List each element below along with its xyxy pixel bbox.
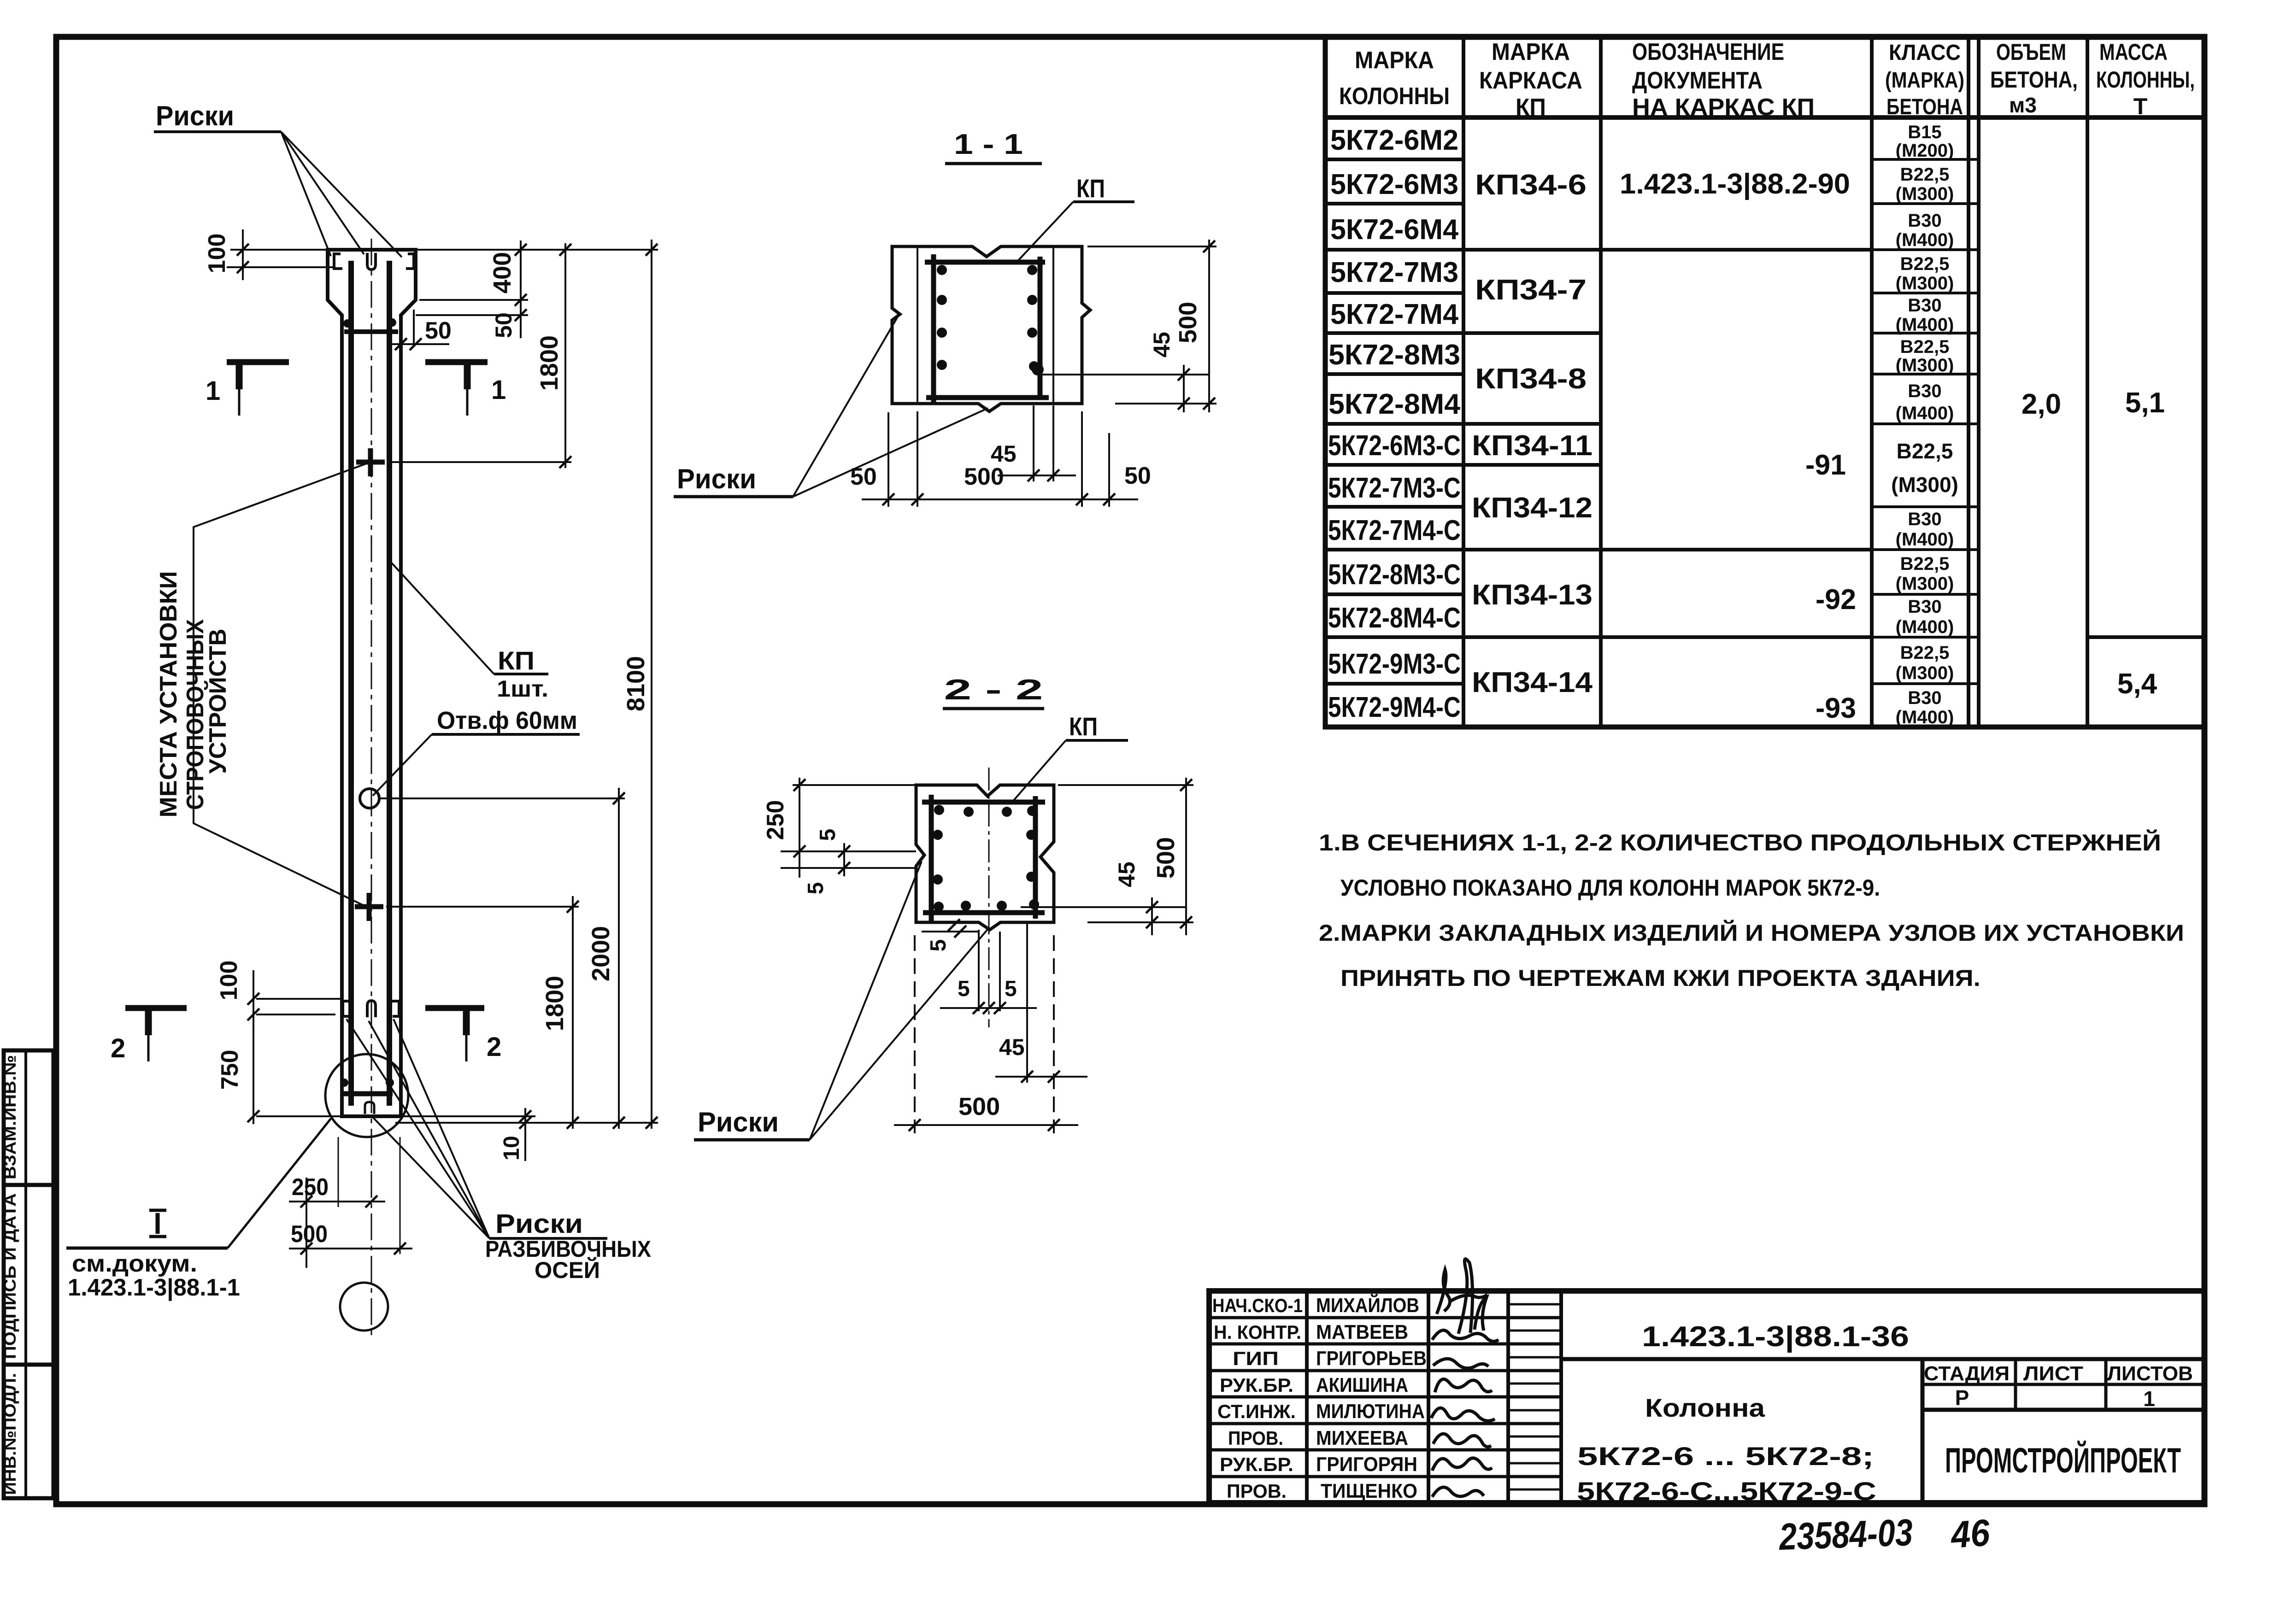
svg-text:1 - 1: 1 - 1: [954, 129, 1023, 160]
svg-text:ГРИГОРЬЕВ: ГРИГОРЬЕВ: [1316, 1347, 1427, 1370]
svg-text:5К72-9М4-С: 5К72-9М4-С: [1328, 692, 1461, 723]
title block vertical line name|signature: [1427, 1291, 1430, 1503]
section 1-1 bars: [937, 265, 947, 275]
svg-text:Н. КОНТР.: Н. КОНТР.: [1214, 1321, 1301, 1343]
section 1-1 bottom chain dim line: [862, 498, 1138, 500]
svg-text:(М300): (М300): [1896, 355, 1954, 375]
big signature flourish top: [1458, 1259, 1487, 1334]
svg-text:КП34-7: КП34-7: [1475, 274, 1587, 306]
extension top right: [1087, 246, 1217, 247]
svg-text:КП: КП: [498, 646, 535, 675]
riski leader fan top 2: [281, 132, 364, 254]
svg-text:АКИШИНА: АКИШИНА: [1316, 1374, 1408, 1396]
svg-text:500: 500: [964, 463, 1004, 490]
svg-text:5: 5: [804, 882, 828, 895]
svg-text:В30: В30: [1908, 688, 1941, 708]
section 1-1 stirrup top bar: [925, 260, 1045, 265]
svg-text:5: 5: [1005, 977, 1017, 1001]
svg-text:(М400): (М400): [1896, 529, 1954, 550]
svg-text:5: 5: [958, 977, 970, 1001]
svg-text:ЛИСТОВ: ЛИСТОВ: [2107, 1362, 2193, 1385]
section 2-2 bottom edge dashed extensions: [914, 935, 916, 1133]
разбивочные leader fan 2: [369, 1021, 489, 1238]
top riska hook right: [406, 254, 414, 269]
svg-text:РУК.БР.: РУК.БР.: [1220, 1454, 1293, 1475]
detail label I: [149, 1209, 166, 1212]
section mark 1 left arrow: [236, 365, 243, 389]
bottom riska hook right: [391, 1001, 399, 1016]
svg-text:(М300): (М300): [1896, 184, 1954, 204]
svg-text:45: 45: [1149, 332, 1175, 358]
detail circle: [325, 1054, 408, 1137]
dim 50 overhang line: [391, 343, 449, 345]
section 2-2 riski leader 2: [810, 928, 989, 1140]
section mark 1 right line: [425, 359, 488, 365]
dim 1800 top line: [564, 243, 566, 468]
extension from bottom cross: [386, 906, 579, 908]
section 2-2 header underline: [943, 707, 1044, 710]
svg-text:УСТРОЙСТВ: УСТРОЙСТВ: [204, 629, 231, 774]
G-SECTION22: [694, 674, 1193, 1140]
svg-text:КП: КП: [1076, 174, 1105, 203]
svg-text:5К72-8М4: 5К72-8М4: [1328, 388, 1461, 420]
svg-text:(М300): (М300): [1896, 663, 1954, 683]
hole circle: [360, 789, 379, 808]
section 1-1 header underline: [945, 162, 1042, 165]
svg-text:100: 100: [204, 234, 230, 274]
svg-text:МИХАЙЛОВ: МИХАЙЛОВ: [1316, 1293, 1419, 1317]
extension line taper bottom right: [416, 314, 528, 316]
svg-text:8100: 8100: [622, 656, 650, 711]
svg-text:ОБОЗНАЧЕНИЕ: ОБОЗНАЧЕНИЕ: [1632, 39, 1784, 65]
svg-text:КП34-8: КП34-8: [1475, 363, 1587, 395]
svg-text:(М200): (М200): [1896, 141, 1954, 161]
row lines column 1: [1325, 159, 1463, 684]
svg-text:400: 400: [488, 252, 516, 293]
dim 1800 bottom line: [572, 896, 574, 1129]
small ticks at bottom notch: [948, 919, 960, 931]
svg-text:КП: КП: [1516, 94, 1546, 121]
svg-text:В15: В15: [1908, 122, 1941, 142]
svg-text:23584-03: 23584-03: [1778, 1512, 1914, 1558]
section 2-2 bar level extension right: [1021, 906, 1186, 908]
section 1-1 bottom extensions: [887, 412, 889, 507]
svg-text:ПРОВ.: ПРОВ.: [1228, 1427, 1283, 1449]
svg-text:В30: В30: [1908, 597, 1941, 617]
svg-text:МАРКА: МАРКА: [1355, 47, 1434, 74]
svg-text:10: 10: [500, 1136, 524, 1160]
svg-text:-93: -93: [1816, 692, 1856, 724]
svg-text:В22,5: В22,5: [1900, 554, 1950, 574]
extension vertical left of bubble: [306, 1178, 307, 1268]
table header bottom line: [1325, 115, 2204, 120]
label Отв underline: [432, 733, 580, 736]
svg-text:Риски: Риски: [156, 100, 234, 131]
left margin strip inner divider: [24, 1050, 27, 1498]
svg-text:5К72-6М4: 5К72-6М4: [1330, 214, 1459, 246]
section 1-1 stirrup bottom bar: [926, 395, 1049, 400]
svg-text:ИНВ.№ПОДЛ.: ИНВ.№ПОДЛ.: [0, 1373, 19, 1495]
КП leader: [392, 563, 494, 674]
масса column split line: [2087, 635, 2204, 639]
svg-text:КОЛОННЫ: КОЛОННЫ: [1339, 83, 1450, 110]
svg-text:Риски: Риски: [677, 463, 756, 494]
bottom anchor line: [343, 1091, 393, 1096]
svg-text:5,1: 5,1: [2125, 387, 2165, 419]
svg-text:ПОДПИСЬ И ДАТА: ПОДПИСЬ И ДАТА: [0, 1193, 19, 1359]
extension from bottom notch left: [922, 931, 979, 932]
table column line 5 (объем | масса): [2086, 37, 2089, 727]
dim 10 line: [524, 1108, 526, 1161]
role labels: [1212, 1295, 1303, 1502]
svg-text:В22,5: В22,5: [1900, 254, 1950, 274]
section 2-2 dim 500 right line: [1185, 778, 1187, 935]
title block row lines left part: [1209, 1318, 1561, 1477]
section 2-2 bars: [934, 805, 944, 815]
bottom riska center fork: [367, 1001, 376, 1017]
svg-text:МАРКА: МАРКА: [1492, 39, 1570, 65]
row lines column 4 класс бетона: [1872, 159, 1979, 684]
section mark 2 left arrow: [145, 1011, 152, 1035]
svg-text:5,4: 5,4: [2117, 668, 2157, 700]
svg-text:5К72-7М3-С: 5К72-7М3-С: [1328, 472, 1461, 504]
svg-text:1.423.1-3|88.2-90: 1.423.1-3|88.2-90: [1620, 168, 1850, 200]
svg-text:50: 50: [491, 312, 517, 338]
стадия column lines: [2014, 1359, 2017, 1410]
svg-text:5: 5: [926, 939, 951, 952]
table column line 2 (марка каркаса | обозначение): [1599, 37, 1603, 727]
section 1-1 riski leader 1: [793, 316, 898, 497]
svg-text:5К72-6М3-С: 5К72-6М3-С: [1328, 430, 1461, 462]
svg-text:1.423.1-3|88.1-1: 1.423.1-3|88.1-1: [68, 1274, 240, 1301]
svg-text:Р: Р: [1955, 1386, 1969, 1410]
svg-text:УСЛОВНО ПОКАЗАНО ДЛЯ КОЛОНН МА: УСЛОВНО ПОКАЗАНО ДЛЯ КОЛОНН МАРОК 5К72-9…: [1340, 875, 1880, 901]
axis bubble: [340, 1283, 388, 1331]
extension line riska level left: [227, 266, 334, 268]
column axis centerline: [371, 239, 372, 1336]
extension line cap bottom right: [419, 299, 528, 301]
svg-text:50: 50: [425, 317, 452, 344]
svg-text:КП34-12: КП34-12: [1472, 492, 1593, 524]
svg-text:500: 500: [958, 1093, 1000, 1120]
svg-text:Отв.ф 60мм: Отв.ф 60мм: [437, 707, 577, 734]
section mark 2 left line: [125, 1005, 187, 1011]
extension line bottom left lower: [256, 1014, 335, 1015]
shaft face extension for 50 dim: [400, 322, 402, 346]
svg-text:КП: КП: [1069, 712, 1098, 741]
strop cross bottom: [355, 904, 383, 909]
strop cross top: [356, 460, 385, 465]
signature squiggles: [1431, 1270, 1499, 1497]
svg-text:1: 1: [206, 376, 220, 406]
svg-text:5К72-7М3: 5К72-7М3: [1330, 257, 1458, 288]
svg-text:Риски: Риски: [495, 1209, 583, 1239]
bottom rebar dot right: [386, 1079, 394, 1087]
svg-text:50: 50: [1124, 463, 1151, 489]
svg-text:КЛАСС: КЛАСС: [1889, 41, 1961, 65]
bottom rebar dot left: [340, 1079, 348, 1087]
svg-text:В30: В30: [1908, 211, 1941, 231]
svg-text:-92: -92: [1816, 584, 1856, 616]
section 2-2 dim 45 bottom: [995, 1076, 1087, 1078]
svg-text:45: 45: [1114, 862, 1140, 887]
G-TITLEBLOCK: [1209, 1259, 2204, 1506]
svg-text:5К72-6М2: 5К72-6М2: [1330, 124, 1458, 156]
svg-text:В30: В30: [1908, 509, 1941, 529]
svg-text:5К72-7М4: 5К72-7М4: [1330, 299, 1459, 330]
left margin strip outer box: [4, 1050, 53, 1498]
title block vertical line role|name: [1305, 1291, 1309, 1503]
section 1-1 riska line left: [917, 246, 918, 404]
section 2-2 small tick line upper: [843, 843, 845, 876]
svg-text:2: 2: [111, 1033, 125, 1063]
svg-text:БЕТОНА: БЕТОНА: [1886, 95, 1963, 119]
extension bottom right: [1115, 403, 1217, 405]
svg-text:1: 1: [491, 375, 506, 405]
svg-text:(М400): (М400): [1896, 315, 1954, 335]
svg-text:ГРИГОРЯН: ГРИГОРЯН: [1316, 1453, 1417, 1476]
svg-text:(М300): (М300): [1896, 574, 1954, 594]
svg-text:КП34-6: КП34-6: [1475, 169, 1587, 201]
svg-text:В22,5: В22,5: [1897, 439, 1953, 463]
dim 400+50 line: [520, 240, 522, 338]
extension top left: [793, 784, 917, 786]
extension line cap top right long: [416, 249, 658, 251]
G-SECTION11: [674, 129, 1217, 507]
svg-text:см.докум.: см.докум.: [72, 1250, 197, 1277]
rebar line right: [387, 261, 392, 1106]
svg-text:250: 250: [762, 800, 789, 840]
svg-text:ОСЕЙ: ОСЕЙ: [535, 1257, 600, 1283]
КП underline: [494, 673, 548, 675]
svg-text:НА КАРКАС КП: НА КАРКАС КП: [1632, 94, 1815, 121]
section 1-1 concrete outline with break notches: [892, 246, 1090, 411]
section mark 1 left line: [227, 359, 289, 365]
section 2-2 dim 500 bottom: [894, 1124, 1078, 1126]
detail leader diagonal: [228, 1119, 331, 1248]
column marks list: [1328, 124, 1461, 723]
разбивочные leader fan 4: [372, 1117, 489, 1238]
hole leader: [373, 734, 432, 796]
svg-text:МАТВЕЕВ: МАТВЕЕВ: [1316, 1321, 1408, 1343]
svg-text:500: 500: [1152, 837, 1180, 879]
svg-text:(М300): (М300): [1891, 473, 1958, 497]
svg-text:КП34-14: КП34-14: [1472, 667, 1593, 698]
section 2-2 КП underline: [1066, 739, 1128, 742]
svg-text:5К72-8М3-С: 5К72-8М3-С: [1328, 559, 1461, 591]
extension bottom right: [1087, 921, 1193, 923]
svg-text:БЕТОНА,: БЕТОНА,: [1990, 67, 2078, 93]
svg-text:ПРОМСТРОЙПРОЕКТ: ПРОМСТРОЙПРОЕКТ: [1945, 1441, 2181, 1480]
каркас marks list: [1472, 169, 1593, 698]
section mark 1 right arrow: [464, 365, 471, 389]
section 1-1 dim 45 right: [1183, 365, 1185, 412]
section 2-2 stirrup top bar: [922, 800, 1045, 805]
svg-text:5К72-8М4-С: 5К72-8М4-С: [1328, 602, 1461, 634]
svg-text:м3: м3: [2009, 93, 2037, 117]
extension line cap top left: [230, 249, 328, 251]
section 2-2 dim 250 line: [799, 778, 800, 878]
section 1-1 riski leader 2: [793, 408, 988, 497]
title block vertical line date|right part: [1559, 1291, 1563, 1503]
bottom riska hook left: [343, 1001, 350, 1016]
section 1-1 stirrup left bar: [931, 254, 936, 404]
svg-text:Риски: Риски: [698, 1107, 779, 1137]
svg-text:(М300): (М300): [1896, 273, 1954, 293]
section 2-2 stirrup left bar: [929, 795, 934, 922]
svg-text:1шт.: 1шт.: [497, 676, 548, 702]
stirrup line: [344, 329, 398, 334]
svg-text:МЕСТА УСТАНОВКИ: МЕСТА УСТАНОВКИ: [155, 571, 182, 818]
svg-text:(МАРКА): (МАРКА): [1885, 68, 1964, 93]
svg-text:500: 500: [1174, 302, 1202, 343]
strop leader polyline: [194, 462, 370, 908]
svg-text:5К72-7М4-С: 5К72-7М4-С: [1328, 515, 1461, 546]
section 2-2 stirrup right bar: [1033, 796, 1038, 919]
svg-text:1.423.1-3|88.1-36: 1.423.1-3|88.1-36: [1642, 1321, 1909, 1353]
svg-text:2 - 2: 2 - 2: [944, 674, 1043, 706]
svg-text:500: 500: [291, 1221, 328, 1248]
section 2-2 Риски underline: [694, 1138, 810, 1142]
section 2-2 5-5 dim line: [940, 1007, 1037, 1009]
stirrup end dot left: [343, 319, 352, 328]
detail label rule: [66, 1247, 228, 1250]
section 1-1 stirrup right bar: [1038, 257, 1043, 400]
left margin strip row line 1: [4, 1183, 53, 1187]
svg-text:В30: В30: [1908, 381, 1941, 401]
stirrup end dot right: [388, 318, 396, 327]
table column line 4a (класс бетона right, double): [1967, 37, 1970, 727]
group lines column 3: [1601, 250, 1872, 637]
section 1-1 КП underline: [1073, 200, 1134, 203]
svg-text:5: 5: [816, 829, 840, 841]
top riska hook left: [334, 254, 342, 269]
svg-text:ТИЩЕНКО: ТИЩЕНКО: [1321, 1480, 1417, 1502]
section 2-2 bottom center verticals: [978, 930, 980, 1011]
svg-text:ОБЪЕМ: ОБЪЕМ: [1996, 39, 2066, 65]
svg-text:В30: В30: [1908, 295, 1941, 316]
svg-text:5К72-6 ... 5К72-8;: 5К72-6 ... 5К72-8;: [1577, 1442, 1874, 1471]
section mark 2 right arrow: [463, 1011, 470, 1035]
svg-text:750: 750: [217, 1050, 243, 1090]
svg-text:5К72-9М3-С: 5К72-9М3-С: [1328, 648, 1461, 680]
table column line 4b (объем бетона left, double): [1977, 37, 1981, 727]
svg-text:1.В СЕЧЕНИЯХ 1-1, 2-2 КОЛИЧЕСТ: 1.В СЕЧЕНИЯХ 1-1, 2-2 КОЛИЧЕСТВО ПРОДОЛЬ…: [1319, 829, 2161, 856]
section 2-2 left notch extensions: [781, 850, 916, 852]
riski leader fan top 3: [281, 132, 402, 257]
group lines column 2: [1463, 250, 1601, 637]
svg-text:МИХЕЕВА: МИХЕЕВА: [1316, 1427, 1408, 1449]
dim 500 line: [289, 1248, 412, 1249]
svg-text:1: 1: [2143, 1387, 2155, 1411]
svg-text:МИЛЮТИНА: МИЛЮТИНА: [1316, 1400, 1425, 1423]
разбивочные leader fan 3: [394, 1019, 489, 1238]
section 1-1 riska line right: [1052, 246, 1054, 404]
svg-text:Колонна: Колонна: [1645, 1393, 1765, 1422]
svg-text:КОЛОННЫ,: КОЛОННЫ,: [2096, 67, 2195, 93]
top riska center fork: [367, 253, 376, 270]
G-NOTES: [1319, 829, 2184, 991]
svg-text:-91: -91: [1805, 449, 1846, 481]
svg-text:100: 100: [216, 961, 242, 1001]
left margin strip row line 2: [4, 1363, 53, 1367]
стадия headers row lines: [1922, 1383, 2204, 1386]
riski leader fan top 1: [281, 132, 331, 256]
dim 8100 line: [651, 240, 652, 1129]
G-TABLE: [1325, 37, 2204, 727]
svg-text:(М400): (М400): [1896, 230, 1954, 250]
svg-text:В22,5: В22,5: [1900, 164, 1950, 185]
section 2-2 КП leader: [1014, 740, 1066, 800]
table outer border: [1325, 37, 2204, 727]
section 2-2 concrete outline with break notches: [916, 785, 1054, 930]
svg-text:50: 50: [850, 463, 877, 490]
G-ELEVATION: [66, 100, 658, 1336]
section 1-1 bar level extension: [1041, 374, 1209, 375]
G-MISC: [1778, 1512, 1992, 1558]
extension vertical from column right corner: [400, 1137, 401, 1254]
section 1-1 bar bottom extensions: [1033, 405, 1034, 481]
svg-text:2.МАРКИ ЗАКЛАДНЫХ ИЗДЕЛИЙ И НО: 2.МАРКИ ЗАКЛАДНЫХ ИЗДЕЛИЙ И НОМЕРА УЗЛОВ…: [1319, 920, 2184, 946]
section 1-1 КП leader: [1018, 202, 1073, 260]
svg-text:НАЧ.СКО-1: НАЧ.СКО-1: [1212, 1295, 1303, 1316]
section mark 2 right line: [425, 1005, 484, 1011]
svg-text:5К72-6-С...5К72-9-С: 5К72-6-С...5К72-9-С: [1577, 1477, 1876, 1506]
svg-text:5К72-6М3: 5К72-6М3: [1330, 169, 1458, 200]
document number cell line: [1561, 1357, 2204, 1361]
svg-text:КАРКАСА: КАРКАСА: [1479, 67, 1582, 94]
svg-text:РУК.БР.: РУК.БР.: [1220, 1374, 1293, 1396]
svg-text:2000: 2000: [587, 926, 615, 981]
title block vertical line signature|date: [1506, 1291, 1510, 1503]
svg-text:СТАДИЯ: СТАДИЯ: [1924, 1362, 2010, 1385]
column outline (elevation): [328, 250, 416, 1116]
svg-text:КП34-13: КП34-13: [1472, 579, 1593, 611]
extension from hole right: [380, 797, 625, 799]
table column line 3 (обозначение | класс бетона): [1870, 37, 1874, 727]
name labels: [1316, 1293, 1427, 1502]
разбивочные leader fan 1: [347, 1019, 489, 1238]
dim 2000 line: [618, 788, 620, 1129]
title block outer border: [1209, 1291, 2204, 1503]
cap face extension for 50 dim: [413, 310, 415, 346]
svg-text:45: 45: [999, 1034, 1025, 1060]
svg-text:46: 46: [1949, 1512, 1992, 1556]
dim 100 top-left line: [242, 229, 244, 280]
section 1-1 dim 500 right line: [1208, 240, 1210, 412]
svg-text:1800: 1800: [535, 335, 563, 391]
table column line 1 (марка колонны | марка каркаса): [1462, 37, 1465, 727]
section 2-2 riski leader 1: [810, 862, 922, 1140]
svg-text:В22,5: В22,5: [1900, 643, 1950, 663]
svg-text:ПРИНЯТЬ ПО ЧЕРТЕЖАМ КЖИ ПРОЕКТ: ПРИНЯТЬ ПО ЧЕРТЕЖАМ КЖИ ПРОЕКТА ЗДАНИЯ.: [1340, 965, 1981, 991]
svg-text:КП34-11: КП34-11: [1472, 430, 1593, 462]
extension line bottom left upper: [256, 998, 342, 1000]
label Риски underline: [154, 130, 281, 133]
section 1-1 dim 45 bottom: [998, 475, 1076, 476]
svg-text:2: 2: [487, 1032, 501, 1062]
svg-text:СТ.ИНЖ.: СТ.ИНЖ.: [1217, 1401, 1296, 1422]
svg-text:(М400): (М400): [1896, 617, 1954, 637]
bottom edge extension left: [256, 1115, 342, 1117]
section 2-2 centerline vertical: [988, 768, 990, 1027]
svg-text:(М400): (М400): [1896, 707, 1954, 727]
title block date column half-pitch lines: [1508, 1304, 1561, 1489]
svg-text:ПРОВ.: ПРОВ.: [1227, 1480, 1287, 1502]
extension vertical from column left corner: [338, 1137, 339, 1207]
svg-text:1800: 1800: [541, 976, 569, 1031]
section 2-2 dim 45 right: [1151, 897, 1153, 935]
